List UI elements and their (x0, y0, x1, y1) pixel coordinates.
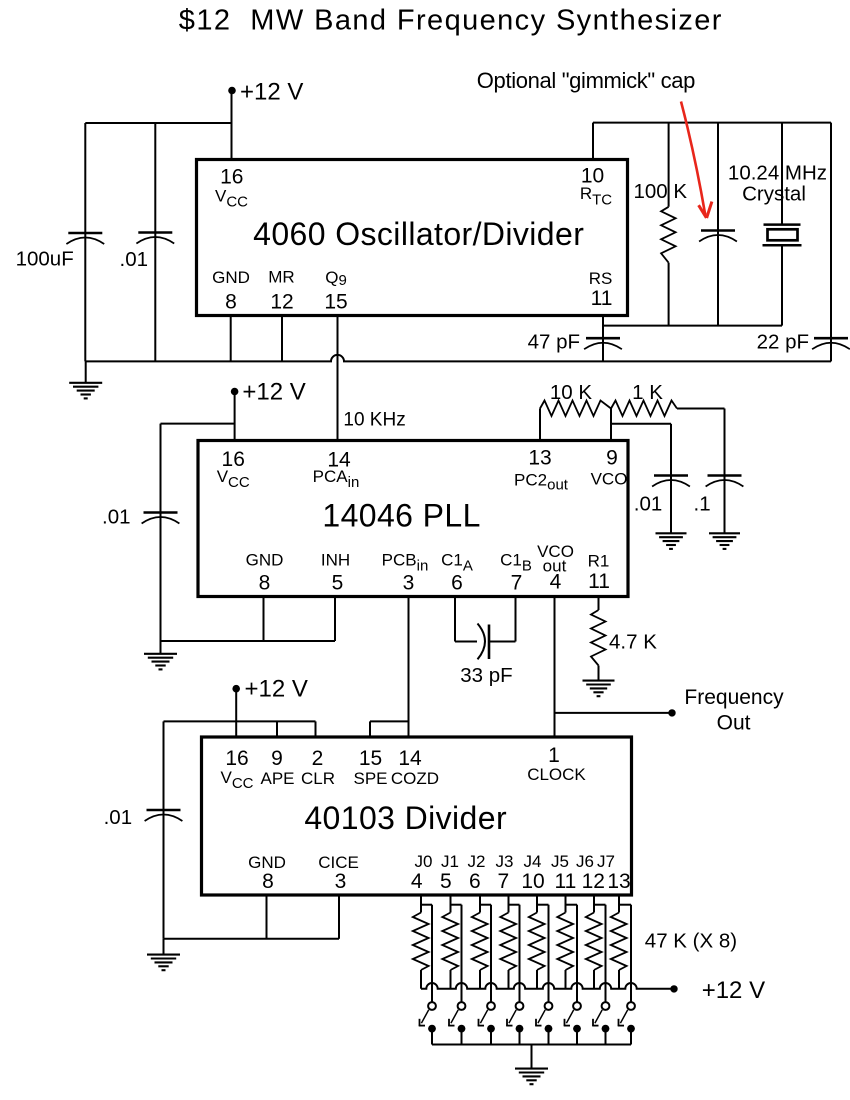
wire switch 2 wire (490, 905, 492, 1002)
IC U2 name 14046 PLL (322, 498, 480, 534)
capacitor .01 (PLL bypass) (142, 513, 180, 524)
node Frequency Out terminal (668, 709, 675, 716)
pin VCC label (40103) (220, 768, 253, 792)
svg-text:8: 8 (259, 572, 271, 595)
resistor 47K #4 (500, 913, 516, 971)
svg-text:RS: RS (589, 269, 613, 288)
pin 14 label (PLL) (327, 449, 351, 472)
wire 40103 GND pin 8 lead (266, 895, 268, 939)
pin 16 label (PLL) (222, 448, 245, 471)
ground 4.7K (583, 681, 615, 697)
wire 33pF left lead (455, 641, 477, 643)
pin 6 label (40103) (469, 870, 481, 893)
label 10 K (550, 381, 592, 404)
svg-text:+12 V: +12 V (240, 79, 303, 106)
resistor 47K #6 (557, 913, 573, 971)
resistor 4.7K (591, 610, 606, 666)
pin 12 label (4060) (270, 291, 293, 314)
wire .01 bottom lead (40103) (163, 821, 165, 939)
pin GND label (4060) (212, 268, 250, 287)
wire 47K #8 bottom lead (618, 970, 620, 989)
svg-text:7: 7 (511, 572, 523, 595)
pin 11 label (4060) (591, 287, 613, 310)
node +12V switches terminal (670, 977, 765, 1004)
wire 22pF bottom lead (830, 349, 832, 361)
pin 9 label (40103) (271, 747, 283, 770)
label 47 K (X 8) (645, 930, 737, 953)
wire bus branch to SPE (370, 720, 409, 722)
svg-text:Crystal: Crystal (742, 183, 806, 206)
svg-text:9: 9 (271, 747, 283, 770)
svg-text:GND: GND (212, 268, 250, 287)
label 10.24 MHz (728, 162, 827, 185)
wire J0 jog to switch (421, 904, 432, 906)
wire PC2out pin 13 lead up (539, 409, 541, 441)
pin 15 label (4060) (324, 291, 347, 314)
svg-text:6: 6 (451, 572, 463, 595)
ground main (left) (69, 361, 102, 398)
wire J6 pin lead (593, 895, 595, 913)
pin VCO label (PLL) (591, 470, 628, 489)
resistor R1 100K (661, 207, 676, 263)
wire APE pin 9 stub (276, 721, 278, 737)
IC U3 name 40103 Divider (304, 800, 507, 836)
wire J7 pin lead (618, 895, 620, 913)
svg-text:14: 14 (398, 747, 422, 770)
pin 10 label (4060) (581, 164, 604, 187)
capacitor gimmick (699, 231, 737, 242)
svg-text:Optional "gimmick" cap: Optional "gimmick" cap (477, 68, 695, 93)
pin CICE label (40103) (318, 853, 359, 872)
wire frequency out tap (555, 712, 669, 714)
svg-text:10 K: 10 K (550, 381, 592, 404)
pin CLR label (40103) (301, 769, 335, 788)
pin C1A label (PLL) (441, 551, 473, 575)
resistor 47K #2 (442, 913, 458, 971)
wire 47K #2 bottom lead (450, 970, 452, 989)
wire switch 3 wire (519, 905, 521, 1002)
pin PC2out label (PLL) (514, 470, 569, 493)
svg-text:J2: J2 (468, 852, 486, 871)
pin VCO label over out (PLL) (537, 542, 574, 561)
capacitor 22pF (812, 338, 850, 349)
svg-text:16: 16 (220, 166, 243, 189)
svg-text:APE: APE (260, 769, 294, 788)
pin 9 label (PLL) (606, 447, 618, 470)
wire PLL ground rail (161, 640, 336, 642)
wire J5 jog to switch (566, 904, 578, 906)
pin PCAin label (PLL) (313, 467, 360, 491)
pin 13 label (PLL) (528, 447, 551, 470)
svg-text:5: 5 (440, 870, 452, 893)
svg-text:MR: MR (268, 268, 294, 287)
ground .01 loop filter (656, 533, 687, 549)
wire switch 6 wire (605, 905, 607, 1002)
wire crystal lower rail (603, 325, 782, 327)
capacitor 33pF (478, 624, 490, 660)
pin 3 label (PLL) (403, 572, 415, 595)
wire 47K #4 bottom lead (508, 970, 510, 989)
switch SW7 (618, 1002, 635, 1044)
wire C1A pin 6 lead (454, 597, 456, 642)
wire J1 jog to switch (451, 904, 462, 906)
svg-text:11: 11 (554, 870, 576, 893)
wire switch 5 wire (576, 905, 578, 1002)
switch SW1 (448, 1002, 465, 1044)
switch SW2 (478, 1002, 495, 1044)
svg-text:SPE: SPE (353, 769, 387, 788)
svg-text:J1: J1 (441, 852, 459, 871)
resistor 47K #5 (529, 913, 545, 971)
wire pin9 branch to .01 (611, 423, 671, 425)
svg-text:J4: J4 (524, 852, 542, 871)
svg-text:J6: J6 (576, 852, 594, 871)
label Optional gimmick cap (477, 68, 695, 93)
pin J7 label (40103) (597, 852, 615, 871)
node +12V supply (PLL) (231, 379, 306, 406)
svg-text:11: 11 (591, 287, 613, 310)
pin 3 label (40103) (335, 870, 347, 893)
wire VCO pin 9 lead up (610, 409, 612, 441)
svg-text:CLOCK: CLOCK (527, 765, 586, 784)
wire 47K #6 bottom lead (565, 970, 567, 989)
wire J5 pin lead (565, 895, 567, 913)
svg-text:14046 PLL: 14046 PLL (322, 498, 480, 534)
pin RS label (4060) (589, 269, 613, 288)
svg-text:15: 15 (359, 747, 382, 770)
wire PLL INH pin 5 lead (334, 597, 336, 642)
wire +12V to 4060 pin 16 (231, 93, 233, 160)
wire crystal top lead (781, 123, 783, 225)
capacitor .01 (loop filter) (652, 476, 690, 487)
wire 100K top lead (668, 123, 670, 207)
resistor 47K #1 (413, 913, 429, 971)
label 33 pF (460, 664, 512, 687)
wire GND pin 8 to ground rail (230, 316, 232, 362)
pin 16 label (40103) (225, 747, 248, 770)
crystal Y1 10.24 MHz (763, 225, 802, 246)
wire 100uF top lead (84, 123, 86, 233)
pin J3 label (40103) (496, 852, 514, 871)
wire J6 jog to switch (594, 904, 606, 906)
pin J5 label (40103) (551, 852, 569, 871)
pin GND label (40103) (248, 853, 286, 872)
node +12V supply (40103) (232, 676, 307, 703)
svg-text:3: 3 (403, 572, 415, 595)
label .1 (loop filter) (694, 493, 711, 516)
svg-text:2: 2 (312, 747, 324, 770)
svg-text:33 pF: 33 pF (460, 664, 512, 687)
wire switch ground bus (432, 1044, 631, 1046)
wire +12V to 40103 pin 16 (235, 691, 237, 737)
label .01 (4060 bypass) (120, 248, 149, 271)
wire C1B pin 7 lead (515, 597, 517, 642)
wire MR pin 12 to ground rail (281, 316, 283, 362)
svg-text:47 K (X 8): 47 K (X 8) (645, 930, 737, 953)
wire switch 1 wire (461, 905, 463, 1002)
switch SW5 (564, 1002, 581, 1044)
wire 40103 top bus (164, 720, 316, 722)
svg-text:10: 10 (521, 870, 544, 893)
pin Q9 label (4060) (325, 268, 347, 289)
svg-text:J3: J3 (496, 852, 514, 871)
svg-text:4: 4 (411, 870, 423, 893)
svg-text:4060 Oscillator/Divider: 4060 Oscillator/Divider (253, 216, 584, 252)
pin 4 label (40103) (411, 870, 423, 893)
svg-text:1: 1 (548, 744, 560, 767)
switch SW4 (535, 1002, 552, 1044)
pin 11 label (PLL) (588, 570, 610, 593)
resistor 47K #7 (586, 913, 602, 971)
capacitor C1 100uF (66, 233, 104, 244)
svg-text:22 pF: 22 pF (757, 331, 809, 354)
wire switch 0 wire (431, 905, 433, 1002)
pin 8 label (PLL) (259, 572, 271, 595)
label 22 pF (757, 331, 809, 354)
resistor 10K (540, 401, 611, 417)
wire PLL GND pin 8 lead (263, 597, 265, 642)
pin 7 label (PLL) (511, 572, 523, 595)
wire 47K #1 bottom lead (420, 970, 422, 989)
pin 10 label (40103) (521, 870, 544, 893)
wire +12V pullup bus with hops (421, 983, 671, 989)
pin 8 label (4060) (225, 291, 237, 314)
switch SW6 (592, 1002, 609, 1044)
svg-text:.1: .1 (694, 493, 711, 516)
capacitor .1 (loop filter) (706, 476, 744, 487)
pin 13 label (40103) (607, 870, 630, 893)
svg-text:11: 11 (588, 570, 610, 593)
label 100 K (634, 180, 688, 203)
wire 4.7K bottom lead (598, 666, 600, 681)
svg-text:CLR: CLR (301, 769, 335, 788)
wire crystal network top rail (593, 122, 831, 124)
wire .01 bottom lead (4060) (154, 244, 156, 362)
label .01 (40103 bypass) (104, 806, 133, 829)
wire SPE pin 15 stub (369, 721, 371, 737)
svg-text:47 pF: 47 pF (528, 331, 580, 354)
svg-text:.01: .01 (634, 493, 663, 516)
label 47 pF (528, 331, 580, 354)
pin 4 label (PLL) (550, 571, 562, 594)
label 1 K (632, 381, 663, 404)
wire .01 top lead (40103) (163, 721, 165, 810)
wire Q9 pin15 to PCAin pin14 (337, 316, 339, 441)
pin 1 label (40103) (548, 744, 560, 767)
pin VCC label (4060) (215, 186, 248, 210)
wire switch 4 wire (548, 905, 550, 1002)
pin INH label (PLL) (321, 551, 350, 570)
svg-text:5: 5 (332, 572, 344, 595)
IC U3 40103 box (202, 737, 632, 895)
svg-text:15: 15 (324, 291, 347, 314)
svg-text:GND: GND (246, 551, 284, 570)
svg-text:10.24 MHz: 10.24 MHz (728, 162, 827, 185)
resistor 1K (611, 401, 677, 417)
svg-text:J5: J5 (551, 852, 569, 871)
svg-text:COZD: COZD (391, 769, 439, 788)
pin 16 label (4060) (220, 166, 243, 189)
wire 40103 CICE pin 3 lead (338, 895, 340, 939)
svg-text:Out: Out (717, 712, 751, 735)
wire .1 cap top lead (724, 409, 726, 476)
svg-text:9: 9 (606, 447, 618, 470)
svg-text:4.7 K: 4.7 K (609, 631, 657, 654)
wire +12V branch to .01 (PLL) (161, 423, 235, 425)
svg-text:R1: R1 (588, 552, 610, 571)
svg-text:13: 13 (528, 447, 551, 470)
label .01 (loop filter) (634, 493, 663, 516)
ground PLL bypass (144, 641, 177, 669)
svg-text:12: 12 (582, 870, 605, 893)
wire RTC pin 10 lead (592, 123, 594, 160)
svg-text:INH: INH (321, 551, 350, 570)
wire .01 top lead (PLL) (160, 424, 162, 513)
wire 100uF bottom lead (84, 244, 86, 361)
pin 7 label (40103) (498, 870, 510, 893)
pin GND label (PLL) (246, 551, 284, 570)
wire R1 pin 11 lead (598, 597, 600, 611)
wire .01 top lead (loop) (670, 424, 672, 476)
wire J4 pin lead (536, 895, 538, 913)
wire 47K #7 bottom lead (593, 970, 595, 989)
label Crystal (742, 183, 806, 206)
svg-text:100 K: 100 K (634, 180, 688, 203)
svg-text:+12 V: +12 V (702, 977, 765, 1004)
pin out label (PLL) (543, 557, 567, 576)
title text (179, 5, 723, 37)
svg-text:VCO: VCO (591, 470, 628, 489)
pin J0 label (40103) (415, 852, 433, 871)
wire J2 jog to switch (480, 904, 491, 906)
pin 15 label (40103) (359, 747, 382, 770)
wire switch 7 wire (630, 905, 632, 1002)
wire 22pF top lead (830, 123, 832, 339)
pin RTC label (4060) (580, 184, 612, 209)
pin J1 label (40103) (441, 852, 459, 871)
svg-text:8: 8 (262, 870, 274, 893)
label 10 KHz (343, 410, 405, 431)
wire 40103 ground rail (164, 938, 340, 940)
wire RS pin 11 lead (602, 316, 604, 339)
ground .1 loop filter (709, 533, 740, 549)
wire 1K to .1 cap horizontal (677, 408, 725, 410)
pin R1 label (PLL) (588, 552, 610, 571)
pin 2 label (40103) (312, 747, 324, 770)
svg-text:.01: .01 (104, 806, 133, 829)
capacitor 47pF (584, 338, 622, 349)
wire J2 pin lead (479, 895, 481, 913)
svg-text:+12 V: +12 V (242, 379, 305, 406)
capacitor .01 (40103 bypass) (145, 810, 183, 821)
svg-text:J7: J7 (597, 852, 615, 871)
switch SW0 (419, 1002, 436, 1044)
svg-text:10 KHz: 10 KHz (343, 410, 405, 431)
wire .1 bottom lead (loop) (724, 487, 726, 533)
wire J3 pin lead (508, 895, 510, 913)
pin COZD label (40103) (391, 769, 439, 788)
pin J6 label (40103) (576, 852, 594, 871)
pin 11 label (40103) (554, 870, 576, 893)
pin 14 label (40103) (398, 747, 422, 770)
wire .01 bottom lead (loop) (670, 487, 672, 533)
svg-text:12: 12 (270, 291, 293, 314)
wire gimmick cap bottom lead (717, 242, 719, 326)
wire +12V to PLL pin 16 (234, 394, 236, 441)
wire J3 jog to switch (509, 904, 520, 906)
svg-text:J0: J0 (415, 852, 433, 871)
svg-text:.01: .01 (102, 506, 131, 529)
pin 8 label (40103) (262, 870, 274, 893)
wire .01 bypass top lead (4060) (154, 123, 156, 233)
svg-text:1 K: 1 K (632, 381, 663, 404)
capacitor C2 .01 (4060 bypass) (136, 233, 174, 244)
wire CLR pin 2 stub (315, 721, 317, 737)
pin 5 label (40103) (440, 870, 452, 893)
wire main ground rail (85, 355, 831, 361)
wire .01 bottom lead (PLL) (160, 524, 162, 642)
svg-text:100uF: 100uF (16, 248, 74, 271)
pin J2 label (40103) (468, 852, 486, 871)
resistor 47K #3 (472, 913, 488, 971)
switch SW3 (506, 1002, 523, 1044)
label 4.7 K (609, 631, 657, 654)
pin PCBin label (PLL) (382, 551, 429, 575)
pin J4 label (40103) (524, 852, 542, 871)
wire PCBin pin3 down (408, 597, 410, 738)
wire gimmick cap top lead (717, 123, 719, 231)
wire 47K #5 bottom lead (536, 970, 538, 989)
IC U1 4060 box (197, 160, 628, 316)
svg-text:6: 6 (469, 870, 481, 893)
label Frequency (684, 686, 784, 709)
ground switches (515, 1045, 548, 1085)
pin CLOCK label (40103) (527, 765, 586, 784)
svg-text:4: 4 (550, 571, 562, 594)
IC U1 name 4060 Oscillator/Divider (253, 216, 584, 252)
svg-text:3: 3 (335, 870, 347, 893)
pin MR label (4060) (268, 268, 294, 287)
pin VCC label (PLL) (217, 467, 250, 491)
wire crystal bottom lead (781, 245, 783, 326)
red arrow to gimmick cap (681, 102, 712, 219)
svg-text:13: 13 (607, 870, 630, 893)
IC U2 14046 box (198, 441, 628, 597)
wire J0 pin lead (420, 895, 422, 913)
wire VCOout pin4 to CLOCK pin1 (554, 597, 556, 738)
label Out (717, 712, 751, 735)
wire J7 jog to switch (619, 904, 631, 906)
svg-text:$12 MW Band Frequency Synthes: $12 MW Band Frequency Synthesizer (179, 5, 723, 37)
svg-text:8: 8 (225, 291, 237, 314)
svg-text:16: 16 (225, 747, 248, 770)
svg-text:40103 Divider: 40103 Divider (304, 800, 507, 836)
ground 40103 bypass (147, 939, 180, 970)
svg-text:Frequency: Frequency (684, 686, 784, 709)
pin APE label (40103) (260, 769, 294, 788)
wire J4 jog to switch (537, 904, 549, 906)
resistor 47K #8 (611, 913, 627, 971)
wire J1 pin lead (450, 895, 452, 913)
node +12V supply (4060) (228, 79, 303, 106)
wire 47pF bottom lead (602, 349, 604, 361)
label 100uF (16, 248, 74, 271)
wire +12V rail branch left (85, 122, 231, 124)
pin 6 label (PLL) (451, 572, 463, 595)
svg-text:.01: .01 (120, 248, 149, 271)
wire 33pF right lead (489, 641, 516, 643)
wire 47K #3 bottom lead (479, 970, 481, 989)
